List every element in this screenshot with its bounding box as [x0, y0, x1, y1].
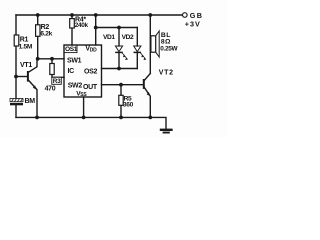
wire VDD feed: [95, 15, 97, 45]
battery terminal GB: [183, 11, 204, 29]
ground: [160, 129, 173, 134]
node R2 top: [36, 13, 40, 17]
node VD1 anode tap: [117, 26, 121, 30]
svg-text:6.2k: 6.2k: [40, 31, 52, 38]
svg-text:VT1: VT1: [20, 62, 32, 69]
wire R4 branch: [71, 15, 73, 19]
svg-text:0.25W: 0.25W: [160, 46, 178, 53]
node R5 top: [119, 83, 123, 87]
resistor R1: [14, 35, 33, 50]
wire OUT to VT2 base: [102, 84, 144, 86]
svg-text:IC: IC: [68, 68, 75, 75]
node VT2 emitter rail: [148, 116, 152, 120]
svg-text:470: 470: [45, 85, 56, 92]
wire LED feed: [96, 27, 138, 29]
node VDD top: [94, 13, 98, 17]
node VT1 emitter rail: [35, 116, 39, 120]
svg-text:VD1: VD1: [103, 34, 115, 41]
wire VT1 emitter: [28, 80, 37, 117]
svg-text:VD2: VD2: [122, 34, 134, 41]
wire R5 branch: [120, 85, 122, 96]
wire R2 branch: [37, 15, 39, 25]
svg-text:360: 360: [123, 102, 134, 109]
wire bottom rail: [16, 116, 150, 118]
svg-text:1.5M: 1.5M: [19, 43, 33, 50]
wire mid horizontal to IC: [38, 58, 64, 60]
node VSS rail: [82, 116, 86, 120]
node R3 top: [50, 57, 54, 61]
node R2 bottom: [36, 57, 40, 61]
wire VD2 cathode: [136, 53, 138, 69]
svg-text:R3: R3: [53, 78, 61, 85]
wire VSS to ground rail: [83, 97, 85, 117]
wire VD2 anode: [136, 28, 138, 47]
wire VT2 collector: [144, 74, 150, 81]
resistor R5: [119, 95, 134, 108]
wire ground jog: [150, 117, 166, 128]
transistor VT2: [144, 70, 174, 97]
wire R3 branch: [51, 59, 53, 64]
wire OS2 to LEDs: [102, 68, 138, 70]
LED VD2: [122, 34, 147, 60]
svg-text:SW2: SW2: [68, 82, 83, 89]
resistor R2: [36, 24, 53, 37]
resistor R4: [70, 16, 89, 29]
svg-text:VT2: VT2: [159, 70, 174, 77]
resistor R3: [45, 64, 62, 93]
svg-text:SW1: SW1: [67, 58, 82, 65]
svg-text:BM: BM: [25, 98, 36, 105]
wire top rail: [16, 14, 184, 16]
junction dots: [14, 13, 152, 119]
node speaker top: [148, 13, 152, 17]
wire VT1 collector: [28, 59, 37, 73]
node LED feed: [94, 26, 98, 30]
svg-text:240k: 240k: [75, 22, 89, 29]
wire left vertical: [15, 15, 17, 99]
transistor VT1: [20, 62, 37, 90]
wire VD1 anode: [118, 28, 120, 47]
LED VD1: [103, 34, 128, 60]
wire VT2 emitter: [144, 87, 150, 117]
svg-text:OUT: OUT: [83, 84, 98, 91]
node R5 rail: [119, 116, 123, 120]
wire VT1 base: [16, 76, 27, 78]
microphone BM: [10, 98, 35, 105]
node R4 top: [70, 13, 74, 17]
wire VD1 cathode: [118, 53, 120, 69]
svg-text:VDD: VDD: [85, 45, 97, 53]
svg-text:VSS: VSS: [76, 90, 87, 98]
wire mic to bottom rail: [15, 105, 17, 117]
IC U1 box: [64, 45, 102, 98]
svg-text:+3V: +3V: [185, 20, 201, 29]
node VD1 cathode tap: [117, 67, 121, 71]
speaker BL: [151, 31, 179, 57]
wire speaker branch: [149, 15, 151, 74]
svg-text:OS2: OS2: [84, 68, 98, 75]
svg-text:OS1: OS1: [65, 46, 78, 53]
node VT1 base: [14, 75, 18, 79]
